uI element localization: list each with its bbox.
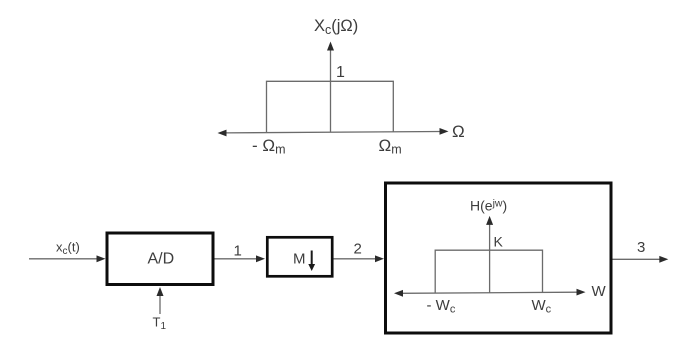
svg-text:A/D: A/D [148,251,175,268]
svg-text:Ω: Ω [452,122,465,141]
svg-text:M: M [293,251,306,268]
svg-text:H(ejw): H(ejw) [470,198,507,214]
svg-text:xc(t): xc(t) [56,240,80,258]
svg-text:2: 2 [354,241,362,258]
svg-text:1: 1 [234,243,242,260]
svg-text:W: W [592,283,607,300]
svg-text:K: K [494,233,504,249]
svg-text:3: 3 [637,239,645,256]
svg-text:Xc(jΩ): Xc(jΩ) [314,17,358,37]
svg-text:1: 1 [336,64,345,81]
